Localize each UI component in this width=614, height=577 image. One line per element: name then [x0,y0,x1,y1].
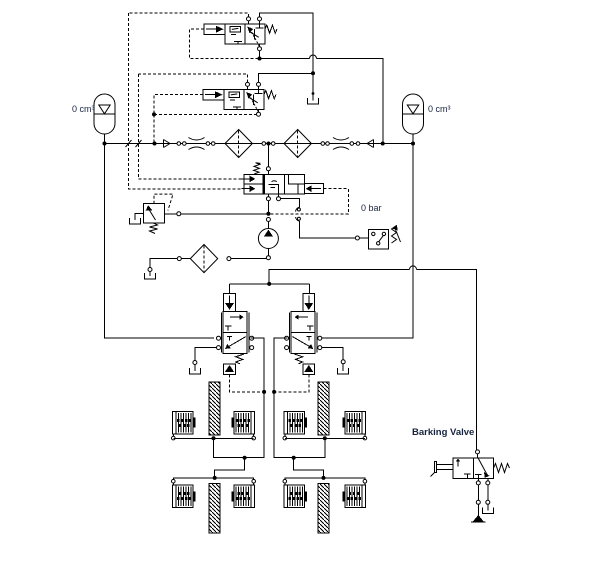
node: junction right accumulator [411,142,415,146]
spring brake pack row1 P1 [172,412,196,440]
brake control valve BV2 (right, mirrored) [285,294,322,375]
wire: PV2 solenoid pilot dashed [154,95,203,115]
wire: BV2 output to brakes [274,338,294,458]
tank T6 (barking valve) [482,507,493,513]
DCV pilot arrow lower [242,185,256,192]
connector break with arcs [296,207,301,221]
wire: PV2 bottom port dashed [154,113,257,115]
wire: PV2 top-left port dashed to loop [139,74,248,83]
pump P1 [258,218,278,260]
brake disc bar row2 left [209,484,220,534]
wire: DCV top port stem [267,144,269,175]
spring brake pack row2 P7 [283,479,307,507]
wire: BV2 feedback dashed [274,374,309,392]
wire: RV1 outlet to pump junction [165,213,267,215]
wire: brake pilot manifold [230,284,310,294]
connector circle suction tank [148,268,152,272]
svg-text:0 bar: 0 bar [361,203,382,213]
svg-text:0 cm³: 0 cm³ [428,104,451,114]
coupling circles right [321,142,325,146]
spring brake pack row1 P2 [231,412,255,440]
tank T4 (left brake) [189,368,200,374]
tank T1 (top) [308,98,319,104]
node: row2 left junction [213,476,217,480]
node: small dot above tank [312,92,315,95]
wire: stem into tank [149,272,151,277]
wire: left zigzag to row2 [215,458,245,478]
wire: BV1 tank line [195,348,217,361]
wire: row1 left riser [214,438,245,457]
wire: row2 manifold right [285,478,365,480]
wire: PV1 output down [259,51,261,59]
node: tank junction [311,71,315,75]
wire: BV1 feedback dashed [230,374,265,392]
node: BV2 feedback junction [272,390,276,394]
wire: PV2 tank line [259,73,314,82]
DCV top port [266,167,270,171]
wire: PV1 tank line top [260,13,314,73]
connector circle BV1 tank [193,361,197,365]
BKV bottom left port to source [476,478,480,515]
wire: row1 manifold left [173,437,253,439]
DCV pilot arrow upper [242,176,256,183]
wire: PV1 output to right drop (hop over tank line) [260,58,310,60]
spring brake pack row1 P4 [343,412,367,440]
barking valve BKV (3/2 manual) [453,450,494,479]
wire: suction line [231,258,267,260]
node: PV2 pilot junction [152,112,156,116]
node: junction valve1 return [381,142,385,146]
filter F2 [284,130,311,158]
spring brake pack row2 P5 [172,479,196,507]
brake disc bar row1 left [209,382,220,435]
wire: BV2 tank line [322,348,343,360]
coupling circles right2 [350,142,354,146]
directional control valve DCV (center) [244,174,305,194]
wire: right zigzag to row2 [294,458,324,478]
check valve V4 (right, pointing left) [367,140,374,148]
tank T2 (relief) [129,218,140,224]
wire: stem to tank [312,73,314,100]
check valve V3 (left, pointing right) [164,140,171,148]
node: row2 right junction [322,476,326,480]
svg-text:0 cm³: 0 cm³ [72,104,95,114]
filter F1 [225,130,252,158]
BKV bottom right port to tank [486,478,490,510]
suction filter F3 [177,245,231,273]
node: row1 right junction [323,436,327,440]
venturi flow sensor right [333,138,349,150]
source triangle (filled) [471,515,486,522]
node: left distribution junction [243,456,247,460]
proportional valve PV1 (top) [204,17,277,51]
wire: big loop right vertical [322,144,413,339]
node: right distribution junction [292,456,296,460]
spring brake pack row2 P6 [231,479,255,507]
DCV right pilot actuator [305,184,324,194]
DCV spring (top-left) [254,163,261,174]
pressure relief valve RV1 [144,204,165,223]
accumulator A2 (right, 0 cm³) [403,94,424,144]
wire: barking supply line (hop over right vertical) [269,269,409,284]
crossing slash marks on main line [126,140,142,147]
node: brake manifold junction [267,282,271,286]
wire: PV1 top-left port dashed to outer loop [129,13,249,17]
wire: big loop left vertical [105,144,215,339]
spring brake pack row1 P3 [283,412,307,440]
wire: DCV port1 down to pump [267,201,269,214]
brake disc bar row1 right [318,382,329,435]
coupling circles left [177,142,181,146]
coupling circles left2 [206,142,210,146]
wire: DCV port2 to gauge drop [281,199,300,208]
coupling circles center [262,142,266,146]
tank T5 (right brake) [338,368,349,374]
proportional valve PV2 (second) [203,82,276,116]
wire: BV1 output to brakes [245,338,265,458]
node: row1 left junction [212,436,216,440]
svg-text:Barking Valve: Barking Valve [412,427,474,438]
wire: dashed loop 2 vertical to DCV upper pilot [139,74,242,179]
wire: drop to pressure switch line [299,221,355,238]
connector circle BV2 tank [341,360,345,364]
wire: row1 right riser [294,438,325,457]
node: junction left accumulator [103,142,107,146]
RV1 pilot dashed [154,194,173,210]
wire: main pressure line [105,143,414,145]
RV1 spring below [150,223,158,234]
BKV lever actuator [431,462,454,477]
venturi flow sensor left [189,138,205,150]
wire: PV2 pilot junction down to main line [153,114,155,143]
node: junction center feed [267,142,271,146]
wire: PV1 solenoid pilot dashed [190,29,258,58]
accumulator A1 (left, 0 cm³) [94,94,115,144]
DCV bottom ports [266,197,270,201]
wire: row2 manifold left [173,478,253,480]
BKV spring right [494,464,510,473]
node: BV1 feedback junction [262,390,266,394]
node: pump top junction [266,212,270,216]
wire: RV1 to tank [135,214,144,221]
wire: DCV right pilot dashed [271,189,349,214]
wire: row1 manifold right [285,437,365,439]
tank T3 (suction) [145,273,156,279]
spring brake pack row2 P8 [343,479,367,507]
brake disc bar row2 right [318,484,329,534]
brake control valve BV1 (left) [217,294,254,375]
node: PV1 output junction [258,57,262,61]
connector circle on RV1 line [177,212,181,216]
wire: filter to tank [150,259,177,268]
wire: dashed outer loop left vertical to DCV lower pilot [129,13,242,189]
pressure switch PS1 [355,225,400,249]
node: junction pilot tap [153,142,157,146]
